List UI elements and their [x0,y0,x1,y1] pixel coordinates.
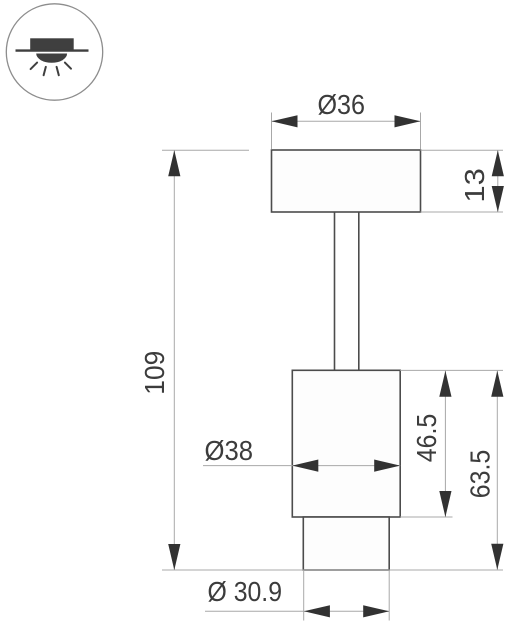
63.5 arrow up [491,371,503,397]
ext line cyl bottom left vert [303,570,305,621]
dia30.9 dim line [205,610,389,612]
dia30.9 arrow left [304,605,330,617]
46.5 arrow down [439,491,451,517]
dia36 dim line [272,120,421,122]
109 arrow down [168,544,180,570]
svg-text:46.5: 46.5 [411,414,442,463]
fixture stem wire left [334,212,336,370]
dim line 63.5 [496,370,498,570]
icon ceiling line [16,49,89,51]
dia36 arrow right [395,115,421,127]
fixture bottom cylinder [303,517,389,570]
ext line plate top left vert [271,113,273,150]
fixture stem wire right [358,212,360,370]
ext line plate top left [162,149,249,151]
46.5 arrow up [439,371,451,397]
109 arrow up [168,150,180,176]
dim line 46.5 [444,370,446,517]
svg-text:Ø38: Ø38 [205,435,254,466]
63.5 arrow down [491,544,503,570]
dia38 leader line [203,465,400,467]
ext line body bottom right [400,516,452,518]
ext line 13 top [421,149,504,151]
dia30.9 arrow right [363,605,389,617]
13 arrow up [492,150,504,176]
dia38 arrow right [374,460,400,472]
icon light rays [31,63,71,76]
ext line 13 bottom [421,211,504,213]
fixture body [292,370,400,517]
dim line 13 [497,150,499,212]
icon lamp dome [36,54,67,63]
icon circle [6,4,102,100]
ext line plate top right vert [420,113,422,150]
dia38 arrow left [292,460,318,472]
dim line 109 [173,150,175,570]
13 arrow down [492,186,504,212]
thin dimension lines [162,113,503,621]
ext line body top right [400,369,503,371]
fixture top plate [272,150,421,212]
icon recessed box [30,38,73,49]
ext line cyl bottom right vert [388,570,390,621]
svg-text:63.5: 63.5 [465,450,496,499]
svg-text:13: 13 [459,168,490,203]
ext line bottom long [162,569,503,571]
dia36 arrow left [272,115,298,127]
svg-text:Ø36: Ø36 [318,89,366,120]
svg-text:Ø 30.9: Ø 30.9 [208,576,283,607]
svg-text:109: 109 [139,351,170,395]
arrows [168,115,504,617]
